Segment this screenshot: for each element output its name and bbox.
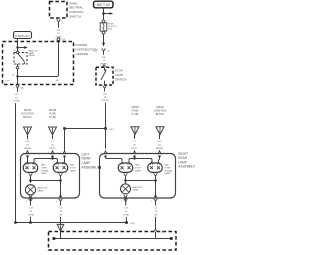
bulb: back-up lamp left: [25, 185, 35, 195]
back-up lamp relay (dashed box): [14, 53, 27, 65]
svg-text:CENTER: CENTER: [76, 52, 89, 56]
svg-text:FROM: FROM: [49, 109, 56, 112]
wire label F30 18 PK/RD: [99, 55, 108, 66]
wire T41 from PNP switch: [58, 22, 60, 37]
pin chevron below edge: [124, 199, 128, 202]
common junction right bulb 1: [124, 179, 127, 182]
svg-text:POWER: POWER: [76, 43, 88, 47]
svg-text:2: 2: [100, 66, 101, 68]
ground distribution (dashed box): [49, 232, 177, 251]
svg-text:1: 1: [23, 152, 24, 154]
merge below tail/stop bulb: [59, 173, 63, 176]
tail feed split right box: [129, 159, 152, 164]
back-up feed bus wire: [16, 222, 127, 224]
svg-text:LAMP: LAMP: [38, 189, 44, 192]
back-up feed wire C13 down left side: [16, 91, 18, 223]
pin 2 below stop lamp switch: [103, 86, 107, 89]
common junction left bulb 2: [59, 179, 62, 182]
svg-text:GN/RD: GN/RD: [24, 148, 31, 150]
svg-text:STOP: STOP: [115, 68, 123, 72]
stop lamp switch output lead: [104, 81, 106, 85]
feed direction arrow: [102, 43, 105, 47]
svg-text:BLOCK: BLOCK: [23, 116, 32, 119]
svg-text:SWITCH: SWITCH: [115, 77, 127, 81]
svg-text:FUSED ACC: FUSED ACC: [15, 34, 30, 38]
relay pin 87 terminal: [16, 66, 19, 69]
svg-text:7: 7: [54, 22, 55, 24]
svg-text:40A: 40A: [108, 28, 112, 31]
svg-text:FROM: FROM: [131, 106, 138, 109]
svg-text:BK/YL: BK/YL: [131, 148, 138, 150]
svg-text:LAMP: LAMP: [135, 169, 141, 172]
junction relay output with T41 branch: [16, 75, 18, 77]
svg-text:2: 2: [100, 88, 101, 90]
wire label Z1 18 BK left: [57, 206, 64, 217]
svg-text:STOP: STOP: [70, 167, 76, 169]
bulb: tail/stop lamp left: [53, 163, 68, 172]
back-up feed wire below right box: [126, 198, 127, 223]
right ground pin 4: [154, 195, 156, 197]
fuse 13 PDC: [102, 20, 105, 23]
svg-text:30: 30: [13, 50, 15, 52]
wire from fused feed into PDC: [17, 39, 19, 53]
svg-text:SIGNAL: SIGNAL: [41, 169, 50, 172]
svg-text:FUSE: FUSE: [49, 113, 56, 116]
wire label L50 18 WT/TN: [100, 91, 109, 102]
tail feed junction right: [133, 157, 135, 159]
wire label C13 18 VT/BK left: [26, 206, 35, 217]
junction on battery feed: [102, 12, 105, 15]
merge below right back-up lamp: [124, 195, 128, 198]
left box back-up pin: [29, 197, 31, 199]
wire label C13 18 VT/BK: [12, 92, 21, 103]
svg-text:3: 3: [130, 152, 131, 154]
common junction right bulb 2: [154, 179, 157, 182]
stop feed drop: [64, 156, 66, 163]
svg-text:LAMP: LAMP: [41, 172, 47, 175]
connector pin 1 into left lamp: [26, 151, 29, 155]
junction on relay feed: [16, 46, 18, 48]
right box back-up pin: [124, 197, 126, 199]
branch wire: [104, 13, 110, 15]
svg-text:TAIL/: TAIL/: [164, 164, 169, 167]
svg-text:WT/TN: WT/TN: [101, 100, 108, 102]
left ground pin 4: [59, 195, 61, 197]
ground terminal square right: [170, 237, 173, 240]
svg-text:8 (JB): 8 (JB): [49, 116, 56, 119]
svg-text:TAIL/: TAIL/: [41, 164, 46, 167]
svg-text:BATT A0: BATT A0: [97, 3, 110, 7]
battery feed box BATT A0: [94, 1, 114, 8]
left rear lamp assembly (box): [21, 154, 80, 199]
svg-text:2: 2: [60, 152, 61, 154]
ground connector triangle below left ground wire: [57, 224, 64, 231]
fused accessory feed box: [14, 32, 32, 39]
ground wire Z1 below right box: [155, 201, 157, 229]
svg-text:2: 2: [26, 201, 27, 203]
park/neutral position switch (dashed box): [50, 2, 68, 19]
wire from BATT: [103, 8, 105, 20]
tail feed split left box: [34, 159, 58, 164]
corner junction back-up feed: [14, 221, 17, 224]
stop feed wire down to right lamp: [105, 129, 107, 149]
svg-text:S301: S301: [109, 129, 115, 131]
ground wire Z1 below left box: [60, 201, 62, 224]
svg-text:2: 2: [121, 201, 122, 203]
wire label T41 18 VT/BK: [54, 28, 63, 39]
connector C5 pin 4: [16, 85, 20, 88]
svg-text:FROM: FROM: [24, 109, 31, 112]
stop lamp switch blade: [101, 71, 106, 80]
connector pin 2 into left lamp: [63, 151, 66, 155]
connector pin 3 into right lamp: [104, 151, 107, 155]
svg-text:VT/BK: VT/BK: [123, 214, 130, 216]
svg-text:LAMP: LAMP: [115, 73, 123, 77]
wire L50 stop feed down to splice S301: [105, 91, 106, 129]
svg-text:RELAY: RELAY: [28, 54, 35, 57]
relay output wire: [17, 69, 19, 85]
svg-text:FROM: FROM: [156, 106, 163, 109]
svg-text:3: 3: [101, 152, 102, 154]
svg-text:VT/BK: VT/BK: [28, 214, 35, 216]
turn feed drop right: [159, 156, 160, 163]
svg-text:ASSEMBLY: ASSEMBLY: [82, 165, 100, 169]
svg-text:JUNCTION: JUNCTION: [154, 110, 167, 113]
svg-text:87: 87: [12, 75, 14, 77]
svg-text:SWITCH: SWITCH: [69, 14, 81, 18]
stop feed jog right box: [106, 156, 123, 163]
connector C1: [102, 48, 106, 51]
svg-text:TAIL/: TAIL/: [70, 164, 75, 167]
pin chevron below edge: [29, 199, 33, 202]
svg-text:BLOCK: BLOCK: [156, 113, 165, 116]
svg-text:BACK-UP: BACK-UP: [38, 187, 48, 190]
svg-text:JUNCTION: JUNCTION: [21, 113, 34, 116]
splice S301: [104, 127, 107, 130]
wire label Z1 18 BK right: [152, 206, 159, 217]
svg-text:S302: S302: [130, 223, 136, 225]
relay switch blade: [18, 54, 25, 62]
relay pin 87 lead: [17, 64, 19, 66]
inner common bus left box: [31, 180, 61, 182]
ground wire into ground bus: [60, 231, 62, 239]
relay contact terminal: [16, 51, 18, 53]
svg-text:4: 4: [151, 201, 152, 203]
splice terminal square: [63, 127, 66, 130]
svg-text:G300: G300: [160, 231, 166, 233]
relay blade contact: [23, 62, 25, 64]
connector pin 1 into right lamp: [158, 151, 161, 155]
svg-text:FUSE: FUSE: [132, 110, 139, 113]
svg-text:SIGNAL: SIGNAL: [164, 169, 173, 172]
wire fuse output: [103, 34, 105, 43]
blade arrow: [105, 69, 107, 71]
junction left back-up lamp feed: [29, 221, 32, 224]
svg-text:STOP: STOP: [135, 167, 141, 169]
tail feed junction: [51, 157, 53, 159]
power distribution center (dashed box): [3, 42, 74, 85]
connector pin 3 into left lamp: [51, 151, 54, 155]
bulb: back-up lamp right: [121, 184, 131, 194]
stop feed branch wire to left lamp: [65, 128, 106, 130]
pin 2 into stop lamp switch: [102, 65, 105, 67]
branch wire: [18, 47, 25, 49]
svg-text:TURN: TURN: [41, 167, 47, 169]
svg-text:A81: A81: [56, 79, 59, 82]
bulb: tail/turn signal lamp left: [23, 163, 38, 172]
merge below right tail/turn bulb: [154, 173, 158, 176]
wire from C4 down and across to relay output: [18, 41, 59, 76]
svg-text:BR/RD: BR/RD: [156, 148, 163, 150]
inner common bus right box: [126, 180, 156, 182]
svg-text:18TN: 18TN: [5, 80, 10, 82]
svg-text:4: 4: [13, 88, 14, 90]
ground terminal square left: [53, 237, 56, 240]
common junction left bulb 1: [29, 179, 32, 182]
svg-text:LAMP: LAMP: [164, 172, 170, 175]
turn feed drop: [27, 156, 29, 163]
svg-text:BACK-UP: BACK-UP: [133, 186, 143, 189]
internal ground bus: [54, 238, 171, 240]
terminal C4: [57, 38, 60, 41]
right rear lamp assembly (box): [100, 154, 176, 199]
bulb: tail/turn signal lamp right: [148, 163, 163, 172]
wire F30 to stop lamp switch: [103, 54, 105, 64]
branch arrow to other circuits: [24, 46, 28, 49]
merge below back-up lamp: [29, 195, 33, 198]
svg-text:4: 4: [56, 201, 57, 203]
svg-text:VT/BK: VT/BK: [13, 101, 20, 103]
wire label C13 18 VT/BK right: [121, 206, 130, 217]
splice S302: [125, 221, 128, 224]
svg-text:3: 3: [48, 152, 49, 154]
svg-text:C104: C104: [93, 51, 98, 53]
svg-text:LAMP: LAMP: [70, 169, 76, 172]
svg-text:BK/YL: BK/YL: [49, 148, 56, 150]
stop lamp switch (dashed box): [96, 67, 113, 85]
svg-text:1: 1: [155, 152, 156, 154]
bulb: tail/stop lamp right: [118, 163, 133, 172]
merge below tail/turn bulb: [29, 173, 33, 176]
back-up feed wire below left box: [30, 198, 32, 223]
svg-text:8 (JB): 8 (JB): [132, 113, 139, 116]
connector pin 3 into right lamp: [133, 151, 136, 155]
merge below right tail/stop bulb: [124, 173, 128, 176]
ground connector G300: [154, 229, 157, 232]
branch arrow to other circuits: [110, 12, 114, 15]
connector pin 7 below PNP switch: [57, 19, 61, 22]
svg-text:TURN: TURN: [164, 167, 170, 169]
svg-text:ASSEMBLY: ASSEMBLY: [178, 165, 196, 169]
svg-text:TAIL/: TAIL/: [135, 164, 140, 167]
stop lamp switch fixed contact: [104, 67, 106, 71]
svg-text:LAMP: LAMP: [133, 189, 139, 192]
splice mark on right box left edge: [99, 166, 101, 169]
stop feed wire down to left lamp: [64, 129, 66, 151]
